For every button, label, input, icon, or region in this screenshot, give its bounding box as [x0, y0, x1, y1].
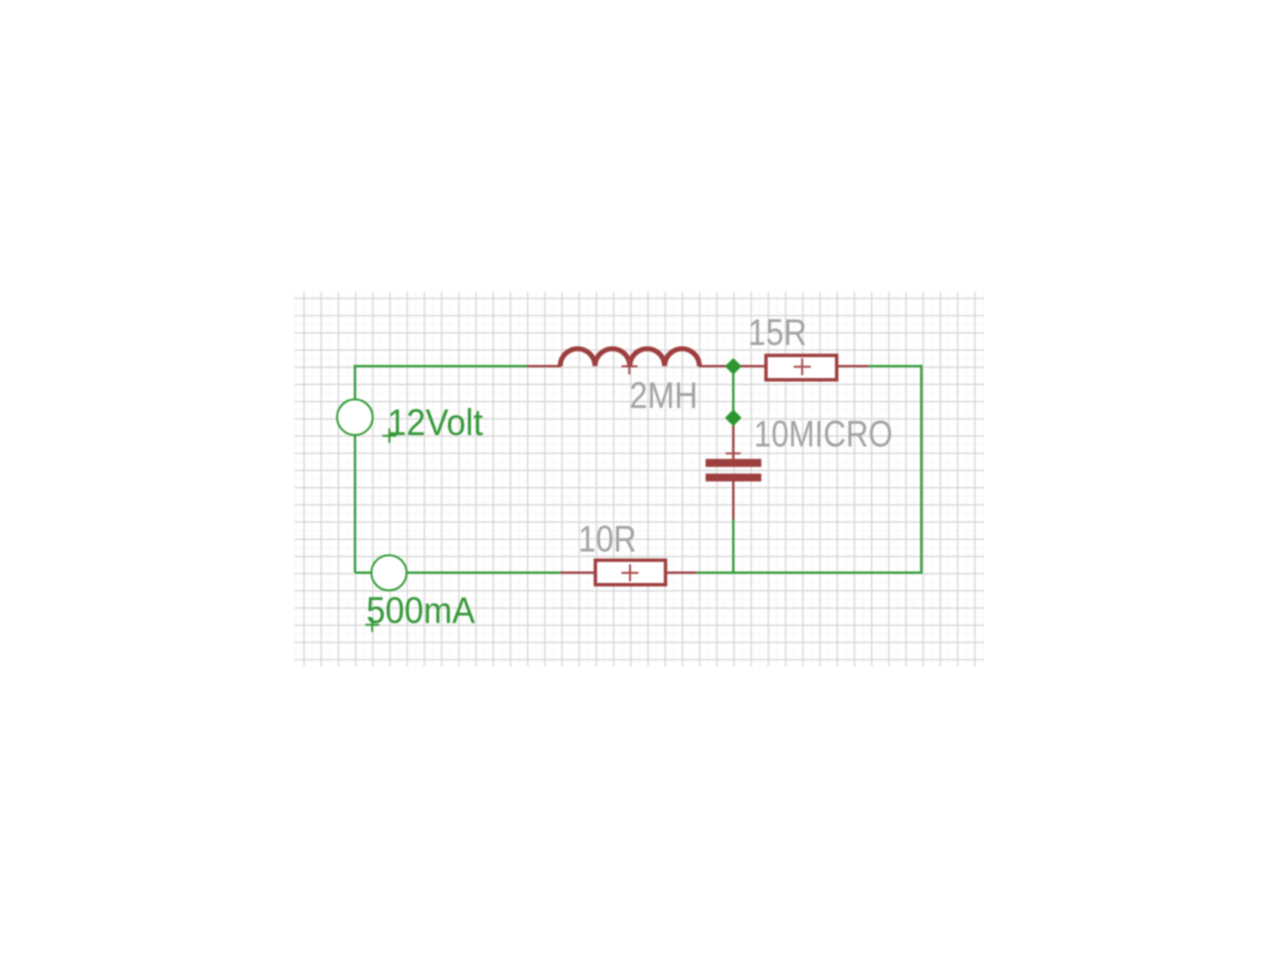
- wire: left vertical green (355,366)-(355,573): [354, 365, 356, 573]
- wire: bottom-left horizontal green (355,573)-(560.5,573): [355, 571, 561, 573]
- wire: red 10R right pin (666.5,573)-(696,573): [666, 571, 696, 573]
- svg-text:500mA: 500mA: [366, 589, 475, 631]
- voltage source origin cross: [382, 429, 396, 443]
- inductor L1 coil (4 arcs): [560, 349, 699, 366]
- capacitor C1 plates: [706, 459, 762, 467]
- resistor R1 10R body: [595, 560, 665, 585]
- wire: red inductor right pin to 15R left pin (699,366)-(764,366): [699, 365, 766, 367]
- svg-text:2MH: 2MH: [630, 374, 698, 416]
- current source origin cross: [365, 618, 379, 632]
- wire: red 15R right pin (838,366)-(868,366): [838, 365, 869, 367]
- resistor 10R origin cross: [622, 564, 639, 581]
- svg-text:15R: 15R: [748, 311, 807, 353]
- wire: bottom-right horizontal green (696,573)-(921,573): [696, 571, 922, 573]
- wire: green between junctions (733,366)-(733,418): [732, 366, 734, 418]
- svg-text:10MICRO: 10MICRO: [754, 413, 893, 455]
- wire: red 10R left pin (560.5,573)-(594,573): [561, 571, 595, 573]
- current source I1 circle: [371, 555, 406, 590]
- resistor R2 15R body: [766, 355, 837, 379]
- capacitor origin cross: [726, 446, 741, 460]
- wire: red capacitor top pin (733,418)-(733,459): [732, 418, 734, 460]
- voltage source V1 circle: [337, 399, 373, 435]
- resistor 15R origin cross: [794, 358, 811, 375]
- wire: green cap bottom to bus (733,520)-(733,573): [732, 520, 734, 573]
- wire: red capacitor bottom pin (733,481)-(733,520): [732, 481, 734, 520]
- inductor origin cross: [622, 358, 638, 374]
- svg-text:10R: 10R: [578, 518, 636, 560]
- junction node A (top): [725, 358, 742, 375]
- wire: top-right horizontal green (868,366)-(921,366): [868, 365, 921, 367]
- junction node B (middle): [725, 409, 742, 426]
- wire: red inductor left pin (527,366)-(560,366): [527, 365, 561, 367]
- wire: right vertical green (921,366)-(921,573): [920, 365, 922, 573]
- wire: top-left horizontal green (355,366)-(527,366): [354, 365, 527, 367]
- svg-text:12Volt: 12Volt: [387, 401, 483, 443]
